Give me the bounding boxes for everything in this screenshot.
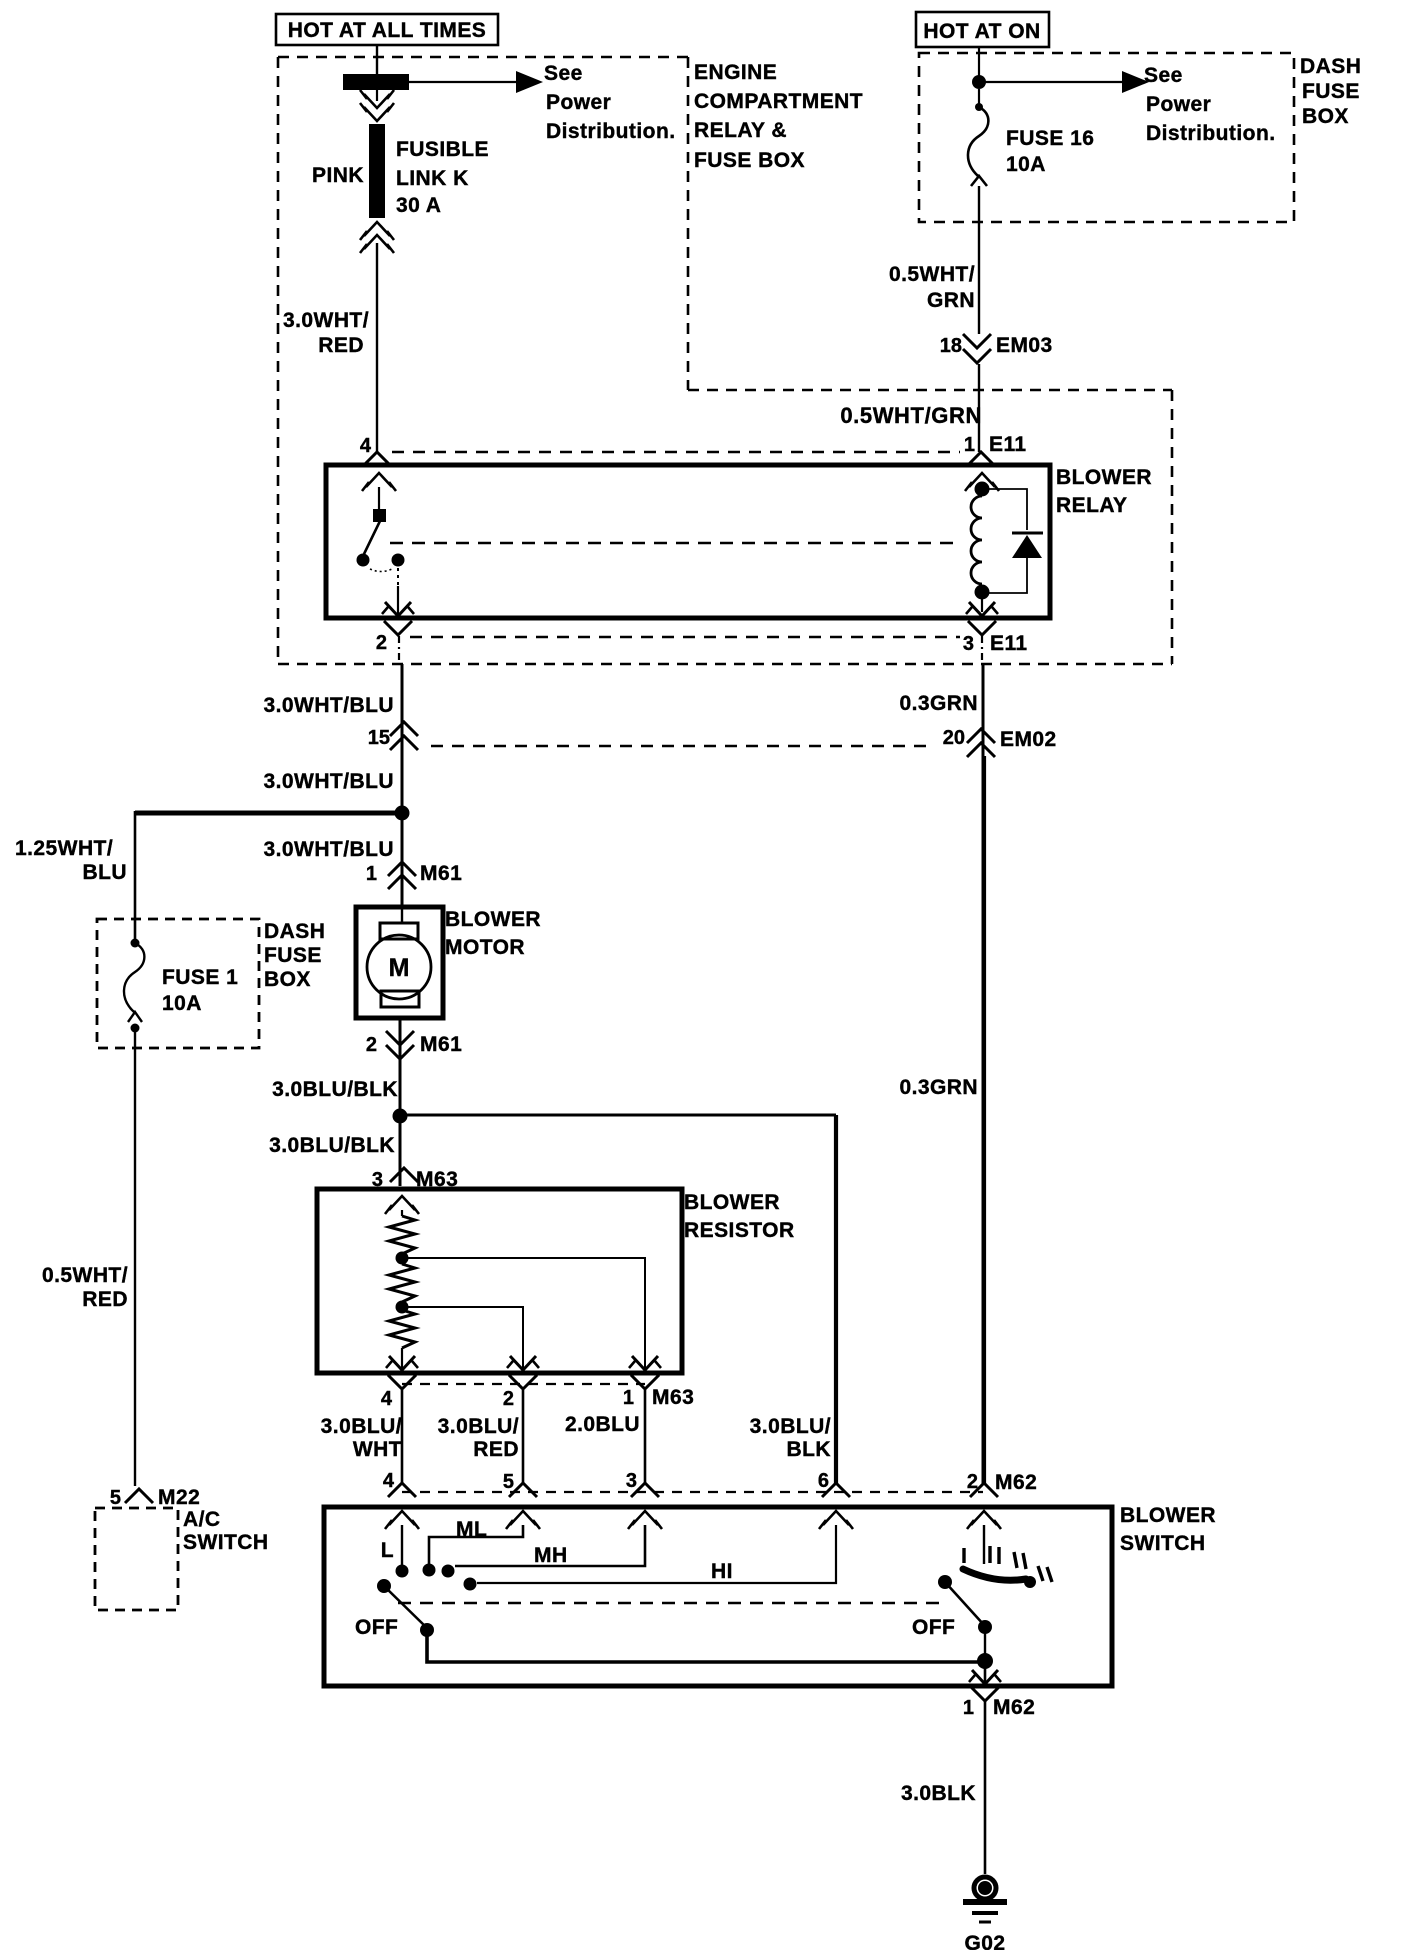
svg-text:ENGINE: ENGINE bbox=[694, 61, 777, 84]
svg-text:EM03: EM03 bbox=[996, 334, 1053, 357]
svg-text:3: 3 bbox=[626, 1470, 637, 1492]
svg-text:0.3GRN: 0.3GRN bbox=[899, 1076, 978, 1099]
svg-text:M61: M61 bbox=[420, 862, 462, 885]
svg-text:2: 2 bbox=[503, 1388, 514, 1410]
svg-text:Power: Power bbox=[546, 91, 611, 114]
svg-text:M63: M63 bbox=[652, 1386, 694, 1409]
svg-text:FUSIBLE: FUSIBLE bbox=[396, 138, 489, 161]
svg-text:1: 1 bbox=[623, 1387, 634, 1409]
svg-text:3.0WHT/BLU: 3.0WHT/BLU bbox=[264, 838, 395, 861]
svg-text:MOTOR: MOTOR bbox=[445, 936, 525, 959]
svg-text:20: 20 bbox=[943, 727, 965, 749]
svg-text:1: 1 bbox=[964, 434, 975, 456]
svg-text:0.5WHT/: 0.5WHT/ bbox=[889, 263, 975, 286]
svg-text:M62: M62 bbox=[995, 1471, 1037, 1494]
svg-text:3.0BLU/BLK: 3.0BLU/BLK bbox=[272, 1078, 398, 1101]
svg-text:5: 5 bbox=[503, 1471, 514, 1493]
svg-text:E11: E11 bbox=[990, 632, 1028, 655]
svg-text:G02: G02 bbox=[964, 1932, 1005, 1950]
svg-text:LINK K: LINK K bbox=[396, 167, 469, 190]
svg-text:FUSE BOX: FUSE BOX bbox=[694, 149, 805, 172]
svg-text:SWITCH: SWITCH bbox=[1120, 1532, 1206, 1555]
svg-text:FUSE: FUSE bbox=[1302, 80, 1360, 103]
svg-text:3.0BLU/: 3.0BLU/ bbox=[750, 1415, 831, 1438]
svg-text:3.0BLU/: 3.0BLU/ bbox=[321, 1415, 402, 1438]
svg-text:RED: RED bbox=[318, 334, 364, 357]
svg-text:10A: 10A bbox=[162, 992, 202, 1015]
svg-text:6: 6 bbox=[818, 1470, 829, 1492]
svg-text:L: L bbox=[381, 1539, 394, 1562]
svg-text:FUSE 1: FUSE 1 bbox=[162, 966, 238, 989]
svg-text:BLU: BLU bbox=[82, 861, 127, 884]
svg-text:3.0WHT/BLU: 3.0WHT/BLU bbox=[264, 770, 395, 793]
svg-text:1: 1 bbox=[366, 863, 377, 885]
svg-text:3.0BLK: 3.0BLK bbox=[901, 1782, 976, 1805]
svg-text:FUSE: FUSE bbox=[264, 944, 322, 967]
svg-text:Distribution.: Distribution. bbox=[546, 120, 676, 143]
svg-text:10A: 10A bbox=[1006, 153, 1046, 176]
svg-text:RED: RED bbox=[473, 1438, 519, 1461]
svg-text:2: 2 bbox=[366, 1034, 377, 1056]
svg-text:BLK: BLK bbox=[786, 1438, 831, 1461]
svg-text:E11: E11 bbox=[989, 433, 1027, 456]
svg-text:OFF: OFF bbox=[355, 1616, 398, 1639]
svg-text:OFF: OFF bbox=[912, 1616, 955, 1639]
svg-text:3.0BLU/BLK: 3.0BLU/BLK bbox=[269, 1134, 395, 1157]
svg-text:GRN: GRN bbox=[927, 289, 975, 312]
svg-text:3.0WHT/: 3.0WHT/ bbox=[283, 309, 369, 332]
svg-text:4: 4 bbox=[360, 435, 372, 457]
svg-text:M: M bbox=[389, 954, 410, 982]
svg-text:4: 4 bbox=[383, 1470, 395, 1492]
svg-text:0.5WHT/: 0.5WHT/ bbox=[42, 1264, 128, 1287]
svg-text:DASH: DASH bbox=[1300, 55, 1361, 78]
svg-text:3: 3 bbox=[963, 633, 974, 655]
svg-text:RED: RED bbox=[82, 1288, 128, 1311]
svg-text:RELAY &: RELAY & bbox=[694, 119, 787, 142]
svg-text:Power: Power bbox=[1146, 93, 1211, 116]
svg-text:BLOWER: BLOWER bbox=[1120, 1504, 1216, 1527]
svg-text:2.0BLU: 2.0BLU bbox=[565, 1413, 640, 1436]
svg-text:RESISTOR: RESISTOR bbox=[684, 1219, 795, 1242]
svg-text:1: 1 bbox=[963, 1697, 974, 1719]
svg-text:0.3GRN: 0.3GRN bbox=[899, 692, 978, 715]
svg-text:HI: HI bbox=[711, 1560, 733, 1583]
svg-text:FUSE 16: FUSE 16 bbox=[1006, 127, 1094, 150]
svg-text:M62: M62 bbox=[993, 1696, 1035, 1719]
svg-text:MH: MH bbox=[534, 1544, 568, 1567]
svg-text:EM02: EM02 bbox=[1000, 728, 1057, 751]
svg-text:30 A: 30 A bbox=[396, 194, 441, 217]
svg-text:COMPARTMENT: COMPARTMENT bbox=[694, 90, 863, 113]
svg-text:3.0BLU/: 3.0BLU/ bbox=[438, 1415, 519, 1438]
svg-text:Distribution.: Distribution. bbox=[1146, 122, 1276, 145]
svg-text:4: 4 bbox=[381, 1388, 393, 1410]
svg-text:PINK: PINK bbox=[312, 164, 364, 187]
svg-text:M61: M61 bbox=[420, 1033, 462, 1056]
svg-text:HOT AT ON: HOT AT ON bbox=[923, 20, 1040, 43]
svg-text:BLOWER: BLOWER bbox=[684, 1191, 780, 1214]
svg-text:M22: M22 bbox=[158, 1486, 200, 1509]
svg-text:1.25WHT/: 1.25WHT/ bbox=[15, 837, 113, 860]
svg-text:BOX: BOX bbox=[1302, 105, 1349, 128]
svg-text:15: 15 bbox=[368, 727, 390, 749]
svg-text:ML: ML bbox=[456, 1518, 487, 1541]
svg-text:WHT: WHT bbox=[353, 1438, 402, 1461]
svg-text:5: 5 bbox=[110, 1487, 121, 1509]
svg-text:2: 2 bbox=[376, 632, 387, 654]
svg-text:RELAY: RELAY bbox=[1056, 494, 1128, 517]
svg-text:0.5WHT/GRN: 0.5WHT/GRN bbox=[840, 403, 982, 428]
svg-text:See: See bbox=[544, 62, 583, 85]
svg-text:DASH: DASH bbox=[264, 920, 325, 943]
svg-text:BLOWER: BLOWER bbox=[445, 908, 541, 931]
svg-text:BLOWER: BLOWER bbox=[1056, 466, 1152, 489]
svg-text:HOT AT ALL TIMES: HOT AT ALL TIMES bbox=[288, 19, 487, 42]
svg-text:A/C: A/C bbox=[183, 1508, 221, 1531]
svg-text:BOX: BOX bbox=[264, 968, 311, 991]
svg-text:18: 18 bbox=[940, 335, 962, 357]
svg-text:3.0WHT/BLU: 3.0WHT/BLU bbox=[264, 694, 395, 717]
svg-text:SWITCH: SWITCH bbox=[183, 1531, 269, 1554]
svg-text:See: See bbox=[1144, 64, 1183, 87]
